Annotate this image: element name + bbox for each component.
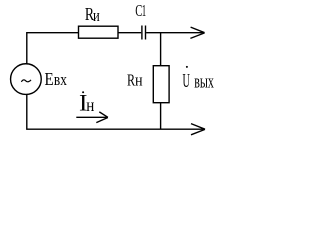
svg-text:R: R [127, 72, 135, 90]
svg-text:U: U [183, 69, 191, 92]
svg-text:вх: вх [54, 72, 67, 90]
svg-text:и: и [93, 7, 100, 25]
svg-text:E: E [45, 69, 54, 89]
svg-text:1: 1 [142, 1, 146, 20]
svg-text:н: н [135, 72, 143, 90]
svg-text:вых: вых [194, 72, 214, 92]
svg-text:н: н [86, 95, 94, 116]
